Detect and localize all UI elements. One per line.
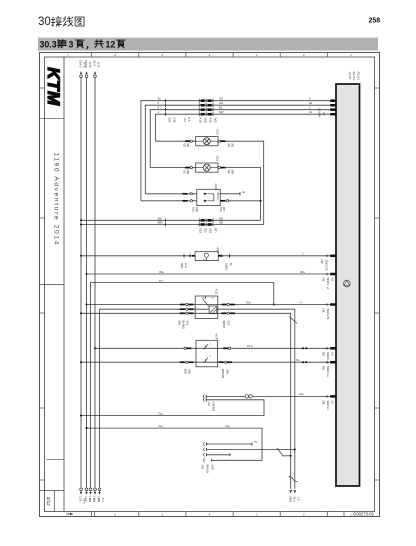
bus connector pin pairs [199,218,213,222]
svg-text:31g: 31g [158,424,163,428]
svg-text:B+: B+ [229,263,233,267]
wire 30a [87,273,331,275]
pin tick bundle 1 [165,99,167,103]
svg-text:GE: GE [219,221,223,225]
svg-text:-A7: -A7 [183,118,187,123]
lamp E13 bulb symbol [196,138,218,145]
svg-text:KTM: KTM [44,67,63,106]
svg-text:a-x: a-x [159,278,163,282]
fuse F15 box [195,252,218,261]
bottom terminal x=81 [80,488,83,491]
svg-text:LV2: LV2 [84,497,88,502]
svg-text:X18: X18 [199,228,203,234]
relay K11 coil wire left leg V6 [100,309,210,488]
ECU pin 2 [330,104,336,107]
control unit symbol [343,280,350,287]
pin tick bundle 4 [165,112,167,116]
svg-text:SDCV-A: SDCV-A [326,366,330,377]
fuse F15 element [204,253,208,257]
svg-text:5-L: 5-L [296,358,300,362]
terminal symbol top x=95 [94,75,97,78]
terminal symbol top x=81 [80,75,83,78]
svg-text:30.3: 30.3 [40,40,57,50]
bottom terminal x=86.5 [85,488,88,491]
svg-text:WS/GN: WS/GN [221,369,225,378]
svg-text:GE: GE [182,170,186,174]
svg-text:SW/: SW/ [204,118,208,124]
svg-text:SV/OR: SV/OR [318,108,322,117]
svg-text:SW: SW [219,110,224,114]
svg-text:+F15: +F15 [216,246,220,253]
svg-text:15A-5: 15A-5 [84,60,88,68]
svg-text:0.75: 0.75 [88,62,92,68]
svg-text:58L: 58L [186,143,190,148]
relay K11 wire 2 [81,313,291,489]
svg-text:BL/WS: BL/WS [181,321,185,330]
svg-text:12: 12 [106,40,116,50]
svg-text:X2: X2 [331,352,335,356]
svg-text:30a: 30a [300,270,305,274]
svg-text:GN/: GN/ [195,207,199,212]
wire bundle 4: down at x=155.6 from y=114.2 [156,114,331,141]
svg-text:-S2: -S2 [207,402,211,407]
svg-text:-K11: -K11 [215,289,219,295]
svg-text:9a: 9a [158,97,162,101]
svg-text:15A-2: 15A-2 [78,60,82,68]
svg-text:LV4: LV4 [93,497,97,502]
svg-text:1.5: 1.5 [296,497,300,501]
svg-text:LV5: LV5 [97,497,101,502]
svg-text:5V: 5V [254,440,257,444]
bottom strip divider [94,512,96,517]
pin tick bundle 3 [165,108,167,112]
svg-text:31-x: 31-x [292,497,296,503]
svg-text:X60: X60 [187,369,191,374]
bottom terminal x=99.5 [98,488,101,491]
ECU pin 10 [330,395,336,398]
drawing frame inner border [45,57,375,512]
frame zone tick marks [40,53,380,517]
lamp E13 box [196,137,218,146]
svg-text:3/12: 3/12 [46,497,51,506]
svg-text:RT/: RT/ [222,207,226,212]
svg-text:258: 258 [369,18,381,25]
svg-text:GE: GE [227,143,231,147]
connector row1 stub [206,443,252,445]
svg-text:GN: GN [219,101,223,105]
relay K14 left pins [186,347,191,349]
lamp E12 box [196,163,218,172]
ECU pin 4 [330,113,336,116]
row2 switch slash [277,448,284,457]
svg-text:0.5: 0.5 [187,118,191,122]
svg-text:RT/: RT/ [214,228,218,233]
connector X23 wire b output with junction [220,200,260,202]
svg-text:SDCV -A: SDCV -A [326,352,330,364]
wire feed from page top at x=86.5 [86,78,88,489]
relay K11 box [195,296,218,319]
svg-text:-K14: -K14 [215,333,219,339]
svg-text:WS/: WS/ [183,369,187,374]
connector X23 left leads [183,193,188,195]
connector pin pair on bundle wire 3 [199,108,213,112]
connector X23 wire a [145,193,197,195]
svg-text:BL: BL [219,106,223,110]
fuse F15 left pin [192,255,195,257]
svg-text:DK: DK [322,352,326,356]
svg-text:GE: GE [227,170,231,174]
svg-text:X2: X2 [331,278,335,282]
connector pin pair on bundle wire 4 [199,112,213,116]
svg-text:WS/: WS/ [214,118,218,124]
svg-text:GE: GE [219,97,223,101]
lamp E12 bulb symbol [196,164,218,171]
svg-text:X23: X23 [219,207,223,212]
svg-text:SW: SW [200,465,204,470]
upper bus wire y=220.3 [81,219,261,221]
svg-text:DK: DK [322,278,326,282]
svg-text:X2: X2 [322,112,326,116]
cable break squiggle across right verticals [289,476,298,481]
bus pin ticks [165,219,167,223]
svg-text:X18: X18 [209,118,213,124]
lead marks wire 362 near ECU [302,361,304,363]
connector row3 stub [206,454,230,456]
svg-text:X60: X60 [210,465,214,471]
svg-text:5-x: 5-x [101,498,105,503]
lamp E13 right lead [218,140,220,142]
svg-text:SDCV B: SDCV B [325,260,329,271]
pin tick bundle 2 [165,103,167,107]
lamp symbol pair on wire [245,395,252,398]
relay K14 wire 1 (to ECU pin 8) [95,347,330,349]
svg-text:30: 30 [38,16,51,28]
svg-text:/ELA1: /ELA1 [352,72,356,81]
connector pin pair on bundle wire 2 [199,103,213,107]
wire bundle 2: down at x=145.3 from y=105.2 [145,105,330,194]
lead marks wire 348 near ECU [302,347,304,349]
svg-text:LLA: LLA [184,263,188,268]
connector X23 wire a output stub [220,193,240,195]
svg-text:SDCV B: SDCV B [326,309,330,320]
svg-text:31g: 31g [225,424,230,428]
svg-text:X60: X60 [225,369,229,374]
svg-text:58R: 58R [158,221,163,225]
bottom arrow x=294.8 [294,490,297,493]
svg-text:SB-9a: SB-9a [216,192,220,200]
switch S2 connector pins [202,395,205,402]
svg-text:SW/VI: SW/VI [222,321,226,329]
svg-text:LV1: LV1 [79,497,83,502]
svg-text:19 a: 19 a [247,344,253,348]
fuse F15 right pin [218,255,221,257]
lamp E13 output wire to lower bus [226,141,264,224]
ECU pin 8 [330,347,336,350]
lower bus wire y=224.5 [81,224,264,226]
relay K14 contact 2 [203,358,207,363]
cable break slash on right verticals upper [290,317,298,324]
svg-text:SW: SW [168,118,172,123]
drawing frame outer border [40,53,380,517]
svg-text:+A18: +A18 [348,72,352,80]
svg-text:BR-EK: BR-EK [205,465,209,474]
ECU pin 9 [330,361,336,364]
relay K11 wire 1 (to ECU pin 7) [87,304,331,306]
svg-text:4a: 4a [242,190,246,194]
ECU pin 3 [330,108,336,111]
svg-text:5a: 5a [309,101,313,105]
lamp E12 input wire [150,167,196,169]
svg-text:-E12: -E12 [215,155,219,161]
fuse F15 supply wire [81,255,330,257]
svg-text:58L: 58L [231,143,235,148]
svg-text:DK: DK [322,309,326,313]
svg-text:87a: 87a [246,300,251,304]
svg-text:SDCV+: SDCV+ [326,401,330,411]
wire feed from page top at x=95 [94,78,96,489]
bottom strip arrow marker [66,513,73,515]
svg-text:SW: SW [177,321,181,326]
svg-text:39a: 39a [159,270,164,274]
svg-text:-X23: -X23 [214,183,218,189]
relay K11 coil output wire [217,309,295,489]
relay K14 wire 2 (to ECU pin 9) [81,361,330,363]
wire S2 to ECU pin 10 [206,395,330,397]
lamp E12 right lead [218,166,220,168]
svg-text:31: 31 [309,110,313,114]
header bar 30.3 page 3 of 12 [38,38,378,51]
4-pin connector curves [203,442,206,462]
lamp E13 input wire [156,140,196,142]
slash to left vertical [284,455,291,457]
relay K11 coil box [209,306,217,314]
svg-text:GE/: GE/ [204,228,208,233]
svg-text:GN/: GN/ [173,118,177,123]
relay K11 switch contact [203,296,209,306]
branch wire relay output to page bottom V4 [91,283,274,489]
svg-text:1190 Adventure 2014: 1190 Adventure 2014 [52,153,59,247]
wire bundle 3: down at x=150.2 from y=109.7 [150,110,330,168]
svg-text:X18: X18 [209,228,213,234]
svg-text:GN-RD: GN-RD [212,402,216,411]
svg-text:DK: DK [322,366,326,370]
connector X23 wire b [141,200,197,202]
lamp E12 output wire to upper bus [226,168,261,221]
lamp E13 left lead [185,140,190,142]
svg-text:X22: X22 [185,321,189,326]
sheet number 3/12 box [53,490,55,511]
ECU pin 6 [330,273,336,276]
svg-text:X23: X23 [192,207,196,212]
svg-text:24a: 24a [299,392,304,396]
svg-text:DK: DK [320,260,324,264]
connector pin pair on bundle wire 1 [199,99,213,103]
svg-text:SEK: SEK [180,263,184,269]
svg-text:X2: X2 [331,401,335,405]
svg-text:G00273-01: G00273-01 [353,512,375,517]
svg-text:58R: 58R [186,170,190,175]
ECU pin 7 [330,303,336,306]
terminal symbol top x=86.5 [85,75,88,78]
relay K11 right pins [222,304,227,306]
connector X23 box [197,189,220,205]
svg-text:3: 3 [69,40,74,50]
svg-text:X22: X22 [226,321,230,326]
connector X23 pin arrows [204,193,208,195]
bottom arrow x=290.7 [289,490,292,493]
lamp E12 left lead [185,167,190,169]
control unit A18 (ECU bar) [336,84,360,486]
svg-text:DK: DK [322,401,326,405]
relay K11 left pins [180,304,185,306]
connector X23 link bar [208,194,214,201]
loop wire V2 to connector row4 [87,428,263,460]
bottom terminal x=90.5 [89,488,92,491]
svg-text:X18: X18 [199,118,203,124]
svg-text:LV3: LV3 [88,497,92,502]
svg-text:MV1: MV1 [288,497,292,503]
svg-text:31-4: 31-4 [92,60,96,66]
bottom terminal x=95 [94,488,97,491]
connector row2 wire to vertical [206,449,294,451]
relay K14 right pins [223,347,228,349]
svg-text:GE: GE [182,143,186,147]
drawing number G00273-01 [343,512,345,517]
relay K14 contact 1 [203,344,207,349]
svg-text:-E13: -E13 [215,129,219,135]
svg-text:/ELA1: /ELA1 [356,72,360,81]
svg-text:58R: 58R [231,170,235,175]
svg-text:31g: 31g [158,412,163,416]
svg-text:SDCV: SDCV [224,263,228,271]
svg-text:SDCV -A: SDCV -A [326,278,330,290]
wire feed from page top at x=81 [80,78,82,489]
ECU pin 1 [330,99,336,102]
wire S2 loop back to V1 [81,400,264,416]
title block sidebar [63,57,65,512]
ECU pin 5 [330,255,336,257]
wire bundle 1: down at x=140.9 from y=100.7 [141,101,330,201]
svg-text:0.75: 0.75 [96,62,100,68]
relay K14 box [196,340,218,367]
